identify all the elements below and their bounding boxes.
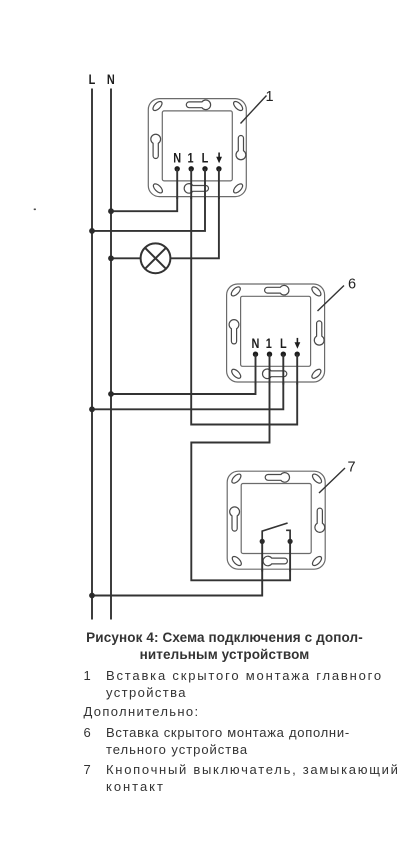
svg-text:6: 6 [348, 277, 356, 293]
svg-text:7: 7 [348, 460, 356, 476]
svg-text:L: L [89, 72, 96, 88]
svg-text:N: N [107, 72, 115, 88]
svg-text:1: 1 [265, 89, 273, 105]
